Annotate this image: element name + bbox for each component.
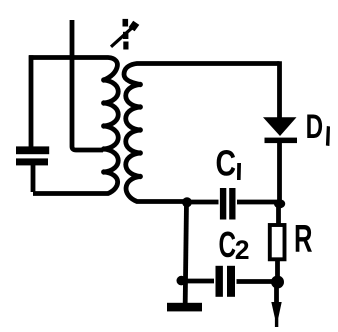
svg-text:R: R xyxy=(294,217,313,260)
svg-text:C: C xyxy=(216,143,237,184)
svg-text:D: D xyxy=(306,108,324,146)
svg-text:2: 2 xyxy=(235,235,250,265)
svg-text:C: C xyxy=(219,224,237,265)
